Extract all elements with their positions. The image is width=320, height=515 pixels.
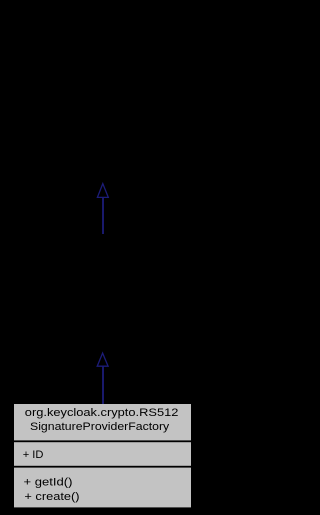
svg-text:+ create(): + create() xyxy=(24,491,79,503)
inheritance arrow to top base class (hollow arrowhead) xyxy=(97,184,108,234)
svg-text:org.keycloak.crypto.RS512: org.keycloak.crypto.RS512 xyxy=(25,407,179,419)
inheritance arrow to middle base class (hollow arrowhead) xyxy=(97,353,108,404)
compartment separator 2 xyxy=(14,466,191,468)
svg-text:SignatureProviderFactory: SignatureProviderFactory xyxy=(30,421,170,433)
svg-text:+ getId(): + getId() xyxy=(24,477,73,489)
compartment separator 1 xyxy=(14,440,191,442)
svg-text:+ ID: + ID xyxy=(23,449,44,461)
class box org.keycloak.crypto.RS512SignatureProviderFactory xyxy=(14,404,191,507)
